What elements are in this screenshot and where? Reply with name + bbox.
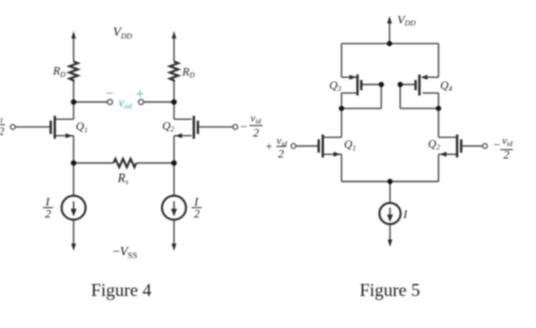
- svg-text:2: 2: [253, 126, 259, 140]
- svg-text:VDD: VDD: [397, 12, 416, 27]
- svg-text:2: 2: [45, 206, 51, 220]
- svg-text:2: 2: [194, 206, 200, 220]
- svg-text:Q3: Q3: [329, 80, 341, 93]
- svg-text:Figure 5: Figure 5: [360, 280, 421, 300]
- svg-text:Q1: Q1: [76, 121, 88, 134]
- svg-text:−: −: [494, 138, 501, 152]
- svg-text:I: I: [402, 207, 408, 221]
- svg-text:−VSS: −VSS: [113, 244, 138, 259]
- svg-text:vod: vod: [119, 96, 132, 111]
- svg-text:RD: RD: [181, 65, 195, 80]
- svg-text:2: 2: [503, 148, 509, 162]
- svg-text:Q4: Q4: [440, 80, 452, 93]
- svg-text:vid: vid: [502, 135, 513, 148]
- svg-text:−: −: [240, 120, 247, 134]
- svg-text:vid: vid: [0, 112, 3, 125]
- svg-text:RD: RD: [52, 64, 66, 79]
- svg-text:Figure 4: Figure 4: [91, 280, 152, 300]
- svg-text:Rs: Rs: [117, 171, 129, 186]
- svg-text:Q2: Q2: [428, 138, 440, 151]
- svg-text:+: +: [136, 87, 144, 103]
- svg-text:Q1: Q1: [344, 139, 356, 152]
- svg-text:vid: vid: [251, 112, 262, 125]
- svg-text:+: +: [266, 139, 273, 153]
- svg-text:VDD: VDD: [113, 25, 132, 40]
- svg-text:2: 2: [278, 146, 284, 160]
- svg-text:−: −: [105, 86, 113, 102]
- svg-text:Q2: Q2: [162, 120, 174, 133]
- svg-text:2: 2: [0, 124, 4, 138]
